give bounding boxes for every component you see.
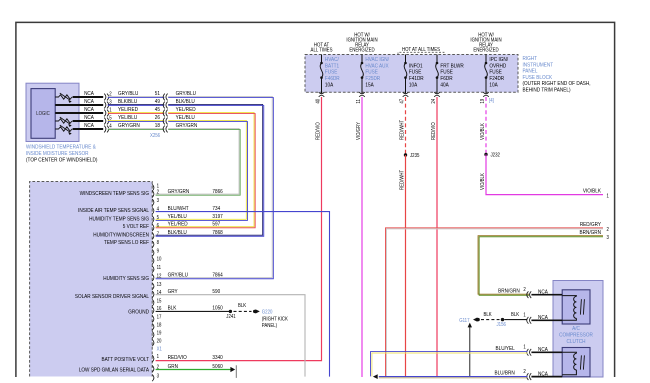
sensor output row pin 1 YEL/RED — [55, 112, 103, 114]
svg-text:NCA: NCA — [538, 371, 548, 378]
svg-text:PANEL): PANEL) — [262, 322, 278, 329]
svg-text:1: 1 — [157, 183, 160, 190]
wire GRY/BLU from sensor to module pin 12 — [156, 96, 273, 277]
svg-text:597: 597 — [212, 221, 220, 228]
svg-text:8: 8 — [157, 240, 160, 247]
wire BLU/BRN from A/C clutch — [379, 376, 528, 378]
svg-text:19: 19 — [157, 330, 162, 337]
svg-text:GRY/GRN: GRY/GRN — [176, 123, 198, 130]
wire GRY from module pin 14 — [156, 295, 305, 377]
svg-text:2: 2 — [523, 369, 526, 376]
svg-text:45: 45 — [155, 107, 160, 114]
svg-text:VIO/GRY: VIO/GRY — [356, 121, 363, 140]
svg-text:12: 12 — [157, 273, 162, 280]
GMLAN bus bar — [235, 365, 237, 378]
svg-text:HUMIDITY TEMP SENS SIG: HUMIDITY TEMP SENS SIG — [89, 216, 149, 223]
svg-text:2: 2 — [607, 227, 610, 234]
svg-text:SOLAR SENSOR DRIVER SIGNAL: SOLAR SENSOR DRIVER SIGNAL — [75, 294, 149, 301]
fuse F41DR INFO1 10A — [405, 55, 407, 93]
svg-text:WINDSCREEN TEMP SENS SIG: WINDSCREEN TEMP SENS SIG — [80, 191, 149, 198]
wire GRY/GRN from sensor to module pin 2 — [156, 128, 239, 194]
svg-text:BLK/BLU: BLK/BLU — [118, 99, 137, 106]
svg-text:YEL/RED: YEL/RED — [168, 221, 188, 228]
svg-text:NCA: NCA — [84, 114, 94, 121]
splice J241 — [229, 310, 232, 313]
svg-text:6: 6 — [157, 223, 160, 230]
svg-text:BRN/GRN: BRN/GRN — [579, 229, 601, 236]
svg-text:2: 2 — [157, 189, 160, 196]
sensor LOGIC block — [31, 89, 55, 139]
off-page arrow up to G117 splice — [469, 327, 471, 377]
svg-text:15A: 15A — [365, 82, 374, 89]
svg-text:18: 18 — [157, 322, 162, 329]
svg-text:20: 20 — [157, 338, 162, 345]
A/C connector pin 1 BLU/YEL — [530, 349, 532, 356]
svg-text:1: 1 — [523, 312, 526, 319]
svg-text:26: 26 — [155, 115, 160, 122]
A/C connector pin 1 BLK — [530, 317, 532, 324]
fuse F25DR HVAC IGN/HVAC AUX 15A — [361, 55, 363, 93]
svg-text:10: 10 — [157, 256, 162, 263]
svg-text:BEHIND TRIM PANEL): BEHIND TRIM PANEL) — [523, 87, 571, 94]
svg-text:HUMIDITY SENS SIG: HUMIDITY SENS SIG — [103, 276, 149, 283]
svg-text:BLK/BLU: BLK/BLU — [176, 99, 195, 106]
svg-text:7868: 7868 — [212, 230, 222, 237]
svg-text:3: 3 — [157, 198, 160, 205]
svg-text:NCA: NCA — [84, 122, 94, 129]
svg-text:J232: J232 — [491, 152, 501, 159]
svg-text:HUMIDITY/WINDSCREEN: HUMIDITY/WINDSCREEN — [93, 232, 149, 239]
wire RED/VIO from fuse F46DR pin 40 to module BATT POSITIVE VOLT — [156, 97, 322, 361]
svg-text:1: 1 — [607, 193, 610, 200]
svg-text:3: 3 — [607, 234, 610, 241]
svg-text:YEL/BLU: YEL/BLU — [176, 115, 195, 122]
svg-text:51: 51 — [155, 91, 160, 98]
svg-text:BRN/GRN: BRN/GRN — [498, 288, 520, 295]
svg-text:RED/VIO: RED/VIO — [431, 122, 438, 140]
svg-text:GRY/BLU: GRY/BLU — [118, 91, 139, 98]
wire YEL/BLU from sensor to module pin 5 — [156, 120, 247, 219]
svg-text:[4]: [4] — [489, 98, 494, 105]
svg-text:NCA: NCA — [84, 90, 94, 97]
svg-text:VIO/BLK: VIO/BLK — [583, 188, 602, 195]
svg-text:RED/VIO: RED/VIO — [315, 122, 322, 140]
sensor output row pin 5 YEL/BLU — [55, 120, 59, 122]
sensor output row pin 2 GRY/BLU — [55, 96, 59, 98]
svg-text:BLK/BLU: BLK/BLU — [168, 230, 187, 237]
svg-text:10A: 10A — [489, 82, 498, 89]
A/C clutch coil lower — [562, 352, 576, 353]
svg-text:X256: X256 — [150, 133, 160, 140]
svg-text:LOGIC: LOGIC — [36, 111, 50, 118]
svg-text:BLU/BRN: BLU/BRN — [494, 370, 514, 377]
svg-text:5 VOLT REF: 5 VOLT REF — [123, 224, 149, 231]
svg-text:GRY/GRN: GRY/GRN — [168, 189, 190, 196]
svg-text:10A: 10A — [325, 82, 334, 89]
svg-text:ALL TIMES: ALL TIMES — [311, 47, 333, 54]
svg-text:(TOP CENTER OF WINDSHIELD): (TOP CENTER OF WINDSHIELD) — [26, 157, 98, 164]
svg-text:GRY/GRN: GRY/GRN — [118, 123, 140, 130]
A/C compressor clutch box — [553, 281, 603, 378]
A/C clutch coil upper — [562, 295, 576, 298]
svg-text:RED/WHT: RED/WHT — [399, 170, 406, 190]
fuse F24DR IPC IGN/OVRHD 10A — [485, 55, 487, 93]
svg-text:GRY/BLU: GRY/BLU — [176, 91, 197, 98]
svg-text:RED/WHT: RED/WHT — [399, 120, 406, 140]
svg-text:J241: J241 — [226, 313, 236, 320]
off-page arrow left on BLU/BRN — [373, 374, 378, 379]
svg-text:18: 18 — [155, 123, 160, 130]
svg-text:YEL/RED: YEL/RED — [176, 107, 196, 114]
svg-text:2: 2 — [523, 287, 526, 294]
svg-text:11: 11 — [157, 265, 162, 272]
svg-text:1: 1 — [157, 354, 160, 361]
wire YEL/RED from sensor to module pin 6 — [156, 112, 254, 226]
svg-text:LOW SPD GMLAN SERIAL DATA: LOW SPD GMLAN SERIAL DATA — [79, 367, 150, 374]
svg-text:INSIDE AIR TEMP SENS SIGNAL: INSIDE AIR TEMP SENS SIGNAL — [78, 208, 149, 215]
ground G220 (right kick panel) — [253, 310, 256, 313]
svg-text:TEMP SENS LO REF: TEMP SENS LO REF — [104, 240, 149, 247]
svg-text:GRY/BLU: GRY/BLU — [168, 272, 189, 279]
svg-text:BLK: BLK — [511, 312, 520, 319]
svg-text:BLK: BLK — [484, 312, 493, 319]
svg-text:YEL/RED: YEL/RED — [118, 107, 138, 114]
svg-text:(RIGHT KICK: (RIGHT KICK — [262, 316, 289, 323]
wire VIO/BLK solid to right edge pin 1 — [486, 155, 603, 195]
svg-text:VIO/BLK: VIO/BLK — [480, 122, 487, 140]
fuse F6DR FRT BLWR 40A — [436, 55, 438, 93]
svg-text:11: 11 — [356, 99, 363, 104]
svg-text:13: 13 — [157, 282, 162, 289]
svg-text:NCA: NCA — [538, 315, 548, 322]
svg-text:BATT POSITIVE VOLT: BATT POSITIVE VOLT — [102, 357, 150, 364]
A/C clutch coil housing upper — [562, 290, 590, 324]
wire BLK from A/C clutch to ground G117 — [504, 319, 527, 321]
svg-text:X1: X1 — [157, 346, 163, 353]
svg-text:7864: 7864 — [212, 272, 222, 279]
wire BLK/BLU from sensor to module pin 7 — [156, 104, 263, 235]
sensor output row pin 4 GRY/GRN — [55, 128, 59, 130]
svg-text:GROUND: GROUND — [128, 309, 149, 316]
svg-text:3340: 3340 — [212, 355, 222, 362]
svg-text:19: 19 — [480, 99, 487, 104]
fuse block exit connectors with pin numbers — [321, 92, 323, 94]
svg-text:NCA: NCA — [538, 289, 548, 296]
wire RED/VIO from fuse F6DR pin 24 — [436, 97, 438, 377]
svg-text:BLK: BLK — [238, 303, 247, 310]
svg-text:J156: J156 — [497, 322, 507, 329]
A/C connector pin 2 BLU/BRN — [530, 373, 532, 380]
fuse F46DR HVAC/BATT1 10A — [321, 55, 323, 93]
svg-text:RED/GRY: RED/GRY — [580, 222, 602, 229]
svg-text:49: 49 — [155, 99, 160, 106]
wire BLK from module pin 16 GROUND to G220 — [156, 310, 230, 312]
svg-text:YEL/BLU: YEL/BLU — [168, 214, 187, 221]
svg-text:NCA: NCA — [84, 106, 94, 113]
splice J156 — [501, 318, 504, 321]
svg-text:3197: 3197 — [212, 214, 222, 221]
wire BRN/GRN from right edge pin 3 to A/C compressor clutch — [478, 236, 603, 295]
module lower connector pins 1-3 — [152, 355, 154, 362]
splice J232 — [484, 153, 487, 156]
svg-text:CLUTCH: CLUTCH — [567, 339, 586, 346]
svg-text:NCA: NCA — [538, 347, 548, 354]
svg-text:G220: G220 — [262, 309, 273, 316]
wire BLU/YEL from A/C clutch — [371, 352, 528, 377]
wire VIO/GRY from fuse F25DR pin 11 — [361, 97, 363, 377]
svg-text:G117: G117 — [459, 317, 470, 324]
svg-text:5: 5 — [157, 214, 160, 221]
svg-text:17: 17 — [157, 314, 162, 321]
svg-text:9: 9 — [157, 248, 160, 255]
A/C clutch coil housing lower — [562, 348, 590, 377]
svg-text:24: 24 — [431, 99, 438, 104]
svg-text:ENERGIZED: ENERGIZED — [473, 47, 499, 54]
wire RED/WHT dashed from fuse F41DR pin 47 — [405, 97, 407, 155]
svg-text:1: 1 — [523, 344, 526, 351]
wire RED/WHT solid below J235 — [405, 155, 407, 377]
svg-text:7: 7 — [157, 231, 160, 238]
svg-text:47: 47 — [399, 99, 406, 104]
A/C connector pin 2 BRN/GRN — [530, 291, 532, 298]
wire RED/GRY to right edge pin 2 — [386, 228, 604, 377]
svg-text:NCA: NCA — [84, 98, 94, 105]
svg-text:10A: 10A — [409, 82, 418, 89]
svg-text:VIO/BLK: VIO/BLK — [480, 172, 487, 190]
windshield temperature and inside moisture sensor box — [26, 83, 79, 141]
module pins 1-20 — [152, 184, 154, 191]
ground G117 — [476, 318, 479, 321]
svg-text:7866: 7866 — [212, 189, 222, 196]
wire GRN from module to GMLAN bus arrow — [156, 369, 231, 371]
svg-text:J235: J235 — [410, 153, 420, 160]
sensor output row pin 3 BLK/BLU — [55, 104, 103, 106]
wire VIO/BLK dashed from fuse F24DR pin 19 — [485, 97, 487, 155]
svg-text:15: 15 — [157, 298, 162, 305]
svg-text:3: 3 — [157, 373, 160, 380]
svg-text:ENERGIZED: ENERGIZED — [349, 47, 375, 54]
splice J235 — [404, 153, 407, 156]
svg-text:40: 40 — [315, 99, 322, 104]
wire BLU/WHT from module pin 4 — [156, 212, 330, 377]
fuse block: right instrument panel fuse block — [305, 55, 518, 93]
svg-text:RED/VIO: RED/VIO — [168, 355, 187, 362]
svg-text:40A: 40A — [440, 82, 449, 89]
svg-text:YEL/BLU: YEL/BLU — [118, 115, 137, 122]
HVAC control module box — [30, 182, 153, 377]
